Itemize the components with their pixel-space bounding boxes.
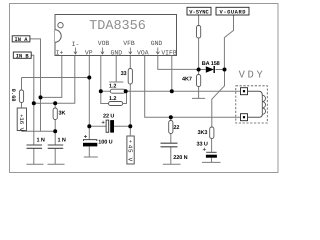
svg-text:GND: GND bbox=[111, 50, 123, 57]
svg-text:BA 158: BA 158 bbox=[202, 61, 220, 67]
svg-text:1 N: 1 N bbox=[58, 137, 66, 143]
svg-text:100 U: 100 U bbox=[98, 139, 112, 145]
svg-text:GND: GND bbox=[151, 40, 163, 47]
svg-text:3K: 3K bbox=[59, 111, 66, 117]
svg-text:IN B: IN B bbox=[16, 53, 30, 59]
svg-text:TDA8356: TDA8356 bbox=[89, 19, 146, 34]
svg-text:1.2: 1.2 bbox=[109, 96, 116, 102]
svg-text:22: 22 bbox=[173, 125, 179, 131]
svg-text:V-SYNC: V-SYNC bbox=[189, 10, 209, 16]
svg-text:0.68: 0.68 bbox=[10, 89, 16, 102]
svg-text:220 N: 220 N bbox=[173, 155, 187, 161]
svg-text:I+: I+ bbox=[56, 50, 64, 57]
svg-text:22 U: 22 U bbox=[103, 113, 114, 119]
svg-text:VP: VP bbox=[85, 50, 93, 57]
svg-text:3K3: 3K3 bbox=[198, 130, 208, 136]
svg-text:4K7: 4K7 bbox=[182, 77, 192, 83]
svg-text:VOA: VOA bbox=[137, 50, 149, 57]
svg-text:I-: I- bbox=[72, 41, 80, 48]
svg-text:33 U: 33 U bbox=[197, 142, 208, 148]
svg-text:1.2: 1.2 bbox=[109, 84, 116, 90]
svg-text:V-GUARD: V-GUARD bbox=[220, 10, 247, 16]
svg-text:VIFB: VIFB bbox=[161, 50, 177, 57]
svg-text:VDY: VDY bbox=[239, 70, 266, 82]
svg-text:16 V: 16 V bbox=[18, 117, 25, 131]
svg-text:IN A: IN A bbox=[15, 37, 29, 43]
svg-text:VFB: VFB bbox=[123, 40, 135, 47]
svg-text:33: 33 bbox=[121, 71, 127, 77]
svg-text:VOB: VOB bbox=[98, 40, 110, 47]
svg-text:1 N: 1 N bbox=[37, 137, 45, 143]
svg-text:45 V: 45 V bbox=[127, 145, 134, 162]
